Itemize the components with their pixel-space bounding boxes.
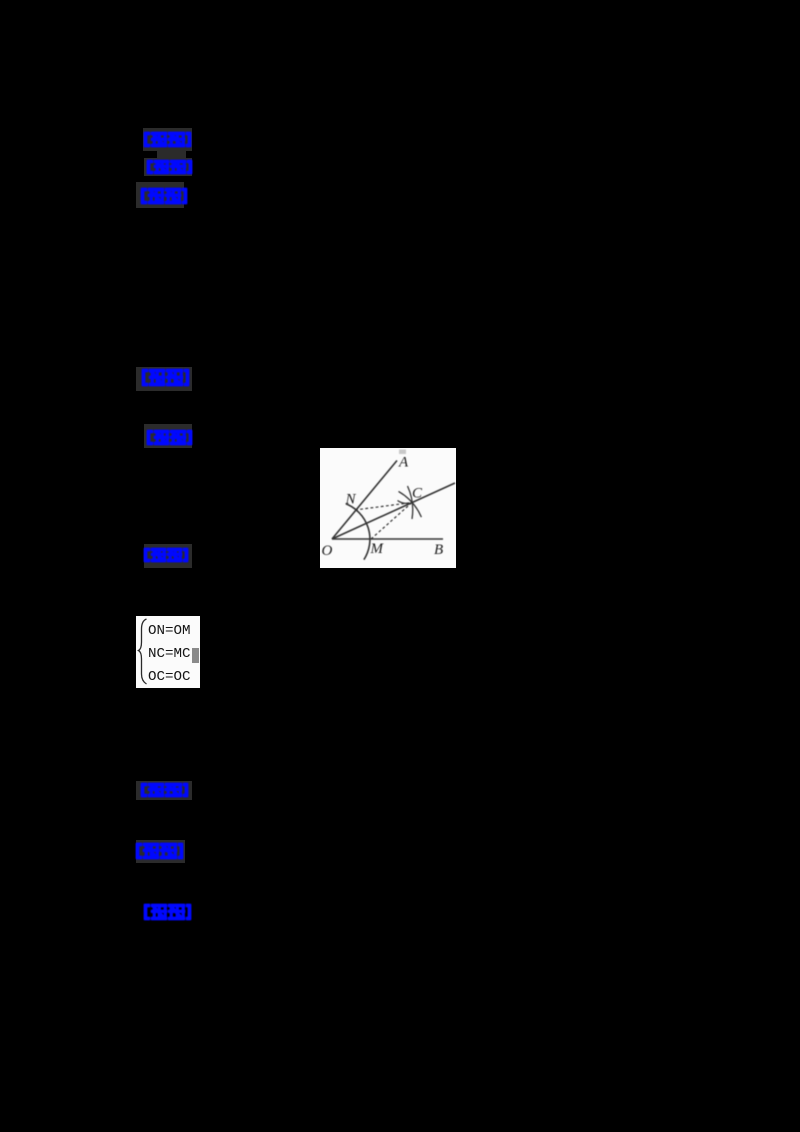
svg-text:OC=OC: OC=OC bbox=[148, 669, 191, 685]
svg-text:N: N bbox=[345, 492, 357, 508]
svg-text:O: O bbox=[322, 543, 333, 559]
svg-text:C: C bbox=[412, 486, 423, 502]
svg-text:A: A bbox=[398, 455, 409, 471]
svg-text:M: M bbox=[370, 541, 385, 557]
svg-text:B: B bbox=[434, 542, 443, 558]
svg-text:NC=MC: NC=MC bbox=[148, 646, 191, 662]
svg-text:ON=OM: ON=OM bbox=[148, 623, 191, 639]
